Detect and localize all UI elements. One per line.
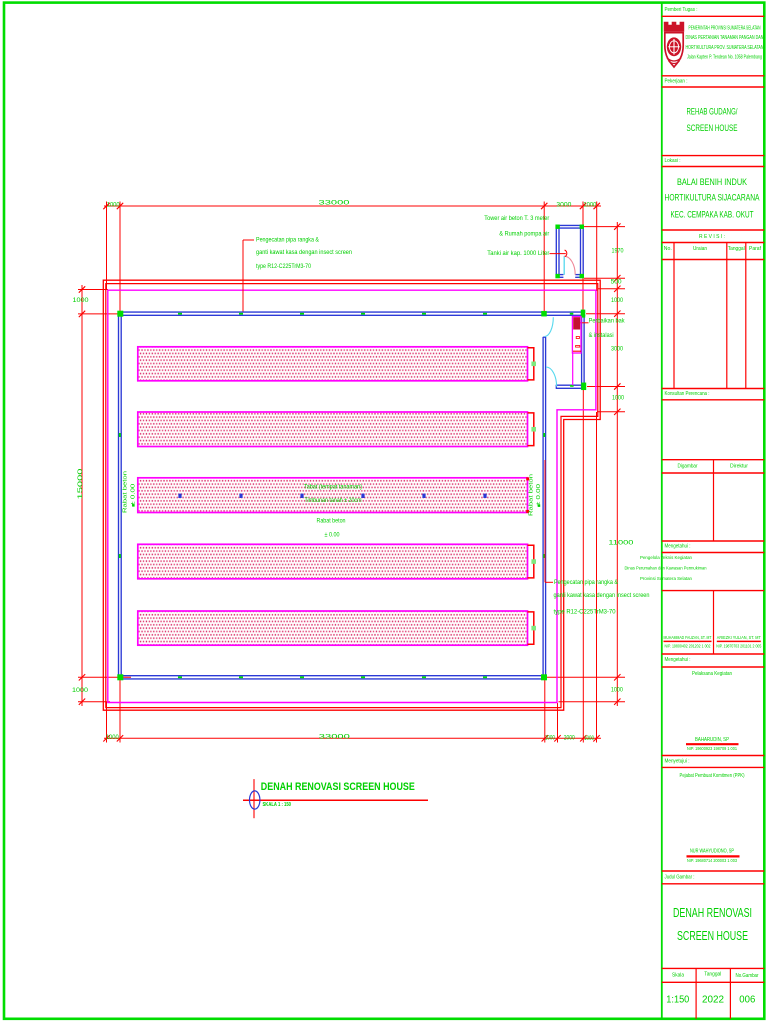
wall stud marks <box>178 313 182 315</box>
svg-text:& Rumah pompa air: & Rumah pompa air <box>499 231 550 238</box>
svg-text:Mengetahui :: Mengetahui : <box>665 657 691 663</box>
svg-text:Tanggal: Tanggal <box>704 972 721 978</box>
svg-text:Jalan Kapten P. Tendean No. 10: Jalan Kapten P. Tendean No. 1058 Palemba… <box>687 54 762 60</box>
title symbol <box>253 779 255 818</box>
svg-text:NUR WAHYUDIONO, SP: NUR WAHYUDIONO, SP <box>690 848 734 854</box>
svg-text:No.: No. <box>664 246 672 252</box>
svg-text:SKALA 1 : 150: SKALA 1 : 150 <box>263 802 292 808</box>
svg-text:Tabat (tempat tanaman): Tabat (tempat tanaman) <box>304 484 362 491</box>
svg-text:SCREEN HOUSE: SCREEN HOUSE <box>687 123 738 134</box>
svg-text:1000: 1000 <box>583 202 596 209</box>
svg-text:KEC. CEMPAKA KAB. OKUT: KEC. CEMPAKA KAB. OKUT <box>671 210 754 220</box>
svg-text:15000: 15000 <box>77 468 84 499</box>
door arc NE corner <box>545 317 554 336</box>
svg-text:Menyetujui :: Menyetujui : <box>665 758 690 764</box>
svg-text:Tanggal: Tanggal <box>728 246 745 252</box>
svg-text:Pekerjaan :: Pekerjaan : <box>665 78 688 84</box>
wall: right (east) <box>542 337 544 679</box>
svg-text:Lokasi :: Lokasi : <box>665 158 681 164</box>
bak red fill <box>573 317 580 329</box>
planting bed row 1 <box>138 347 528 381</box>
svg-text:Rabat beton: Rabat beton <box>123 471 129 513</box>
leader: tanki air <box>550 253 566 255</box>
svg-text:Provinsi Sumatera Selatan: Provinsi Sumatera Selatan <box>640 576 692 582</box>
svg-text:1970: 1970 <box>612 248 624 255</box>
svg-text:DENAH RENOVASI: DENAH RENOVASI <box>673 906 752 920</box>
svg-text:1000: 1000 <box>73 297 89 304</box>
svg-text:Judul Gambar :: Judul Gambar : <box>665 875 695 881</box>
svg-text:PEMERINTAH PROVINSI SUMATERA S: PEMERINTAH PROVINSI SUMATERA SELATAN <box>689 25 761 31</box>
svg-text:DENAH RENOVASI SCREEN HOUSE: DENAH RENOVASI SCREEN HOUSE <box>261 781 415 793</box>
svg-text:BAHARUDIN, SP: BAHARUDIN, SP <box>695 737 729 743</box>
planting bed row 4 <box>138 544 528 579</box>
pipe line <box>572 353 574 385</box>
wall: annex east <box>581 311 583 389</box>
svg-text:Tower air beton T. 3 meter: Tower air beton T. 3 meter <box>484 215 550 222</box>
title block left border <box>661 3 663 1019</box>
svg-text:1:150: 1:150 <box>666 994 689 1005</box>
svg-text:NIP. 19600923 198709 1 001: NIP. 19600923 198709 1 001 <box>687 746 737 752</box>
top extension lines <box>106 202 108 291</box>
svg-text:11000: 11000 <box>608 540 633 547</box>
wall: annex south <box>556 384 585 386</box>
planting bed row 2 <box>138 412 528 447</box>
svg-text:ganti kawat kasa dengan insect: ganti kawat kasa dengan insect screen <box>256 249 352 256</box>
svg-text:Timbunan tanah ± 20cm: Timbunan tanah ± 20cm <box>305 497 362 504</box>
svg-text:MUHAMMAD FAUZAN, ST. MT: MUHAMMAD FAUZAN, ST. MT <box>664 635 712 640</box>
svg-text:Tanki air kap. 1000 Liter: Tanki air kap. 1000 Liter <box>487 250 550 257</box>
leader: pengecatan (top) <box>243 239 254 241</box>
svg-text:Skala: Skala <box>672 973 684 979</box>
svg-text:2000: 2000 <box>564 734 575 741</box>
tower corner nodes <box>555 225 559 229</box>
top dimension line <box>104 205 601 207</box>
sprinkler dots center bed <box>178 494 181 498</box>
svg-text:Paraf: Paraf <box>749 246 762 252</box>
svg-text:1000: 1000 <box>72 687 88 694</box>
wall nodes <box>117 311 123 317</box>
svg-text:ARIEZKI YULIAN, ST. MT: ARIEZKI YULIAN, ST. MT <box>717 635 761 640</box>
dimension ticks <box>103 203 109 209</box>
svg-text:2022: 2022 <box>702 994 724 1005</box>
bottom dimension line <box>104 737 601 739</box>
bottom table columns <box>695 968 697 1018</box>
svg-text:Mengetahui :: Mengetahui : <box>665 543 691 549</box>
svg-text:Pengelola Teknis Kegiatan: Pengelola Teknis Kegiatan <box>640 555 692 561</box>
section lines <box>662 15 764 17</box>
svg-text:R E V I S I :: R E V I S I : <box>699 234 725 240</box>
door arc at annex <box>546 367 557 387</box>
svg-text:BALAI BENIH INDUK: BALAI BENIH INDUK <box>677 177 748 187</box>
planting bed row 5 <box>138 611 528 645</box>
right dimension line <box>616 222 618 706</box>
svg-text:NIP. 19800402 201202 1 002: NIP. 19800402 201202 1 002 <box>665 644 712 649</box>
svg-text:33000: 33000 <box>319 734 350 741</box>
svg-text:Pelaksana Kegiatan: Pelaksana Kegiatan <box>692 671 732 677</box>
svg-text:Digambar: Digambar <box>678 464 698 470</box>
wall: top (north) <box>118 311 585 313</box>
svg-text:± 0.00: ± 0.00 <box>325 531 340 538</box>
svg-text:NIP. 19680714 200003 1 003: NIP. 19680714 200003 1 003 <box>687 858 737 864</box>
svg-text:1000: 1000 <box>545 735 555 742</box>
svg-text:REHAB GUDANG/: REHAB GUDANG/ <box>687 107 738 118</box>
svg-text:Dinas Perumahan dan Kawasan Pe: Dinas Perumahan dan Kawasan Permukiman <box>625 566 707 572</box>
tower door leaf <box>563 256 565 275</box>
logo shield <box>664 22 684 67</box>
tower door arc <box>564 256 575 275</box>
svg-text:NIP. 19870703 201101 2 005: NIP. 19870703 201101 2 005 <box>716 644 761 649</box>
svg-text:No.Gambar: No.Gambar <box>736 973 759 979</box>
leader: pengecatan (bottom-right) <box>545 581 553 583</box>
svg-text:Pengecatan pipa rangka &: Pengecatan pipa rangka & <box>256 237 319 244</box>
svg-text:HORTIKULTURA SIJACARANA: HORTIKULTURA SIJACARANA <box>665 193 761 203</box>
svg-text:006: 006 <box>739 994 755 1005</box>
wall: bottom (south) <box>118 675 547 677</box>
magenta boundary line <box>108 290 596 702</box>
svg-text:Perbaikan bak: Perbaikan bak <box>589 317 626 324</box>
svg-text:Konsultan Perencana :: Konsultan Perencana : <box>665 391 710 397</box>
svg-text:Pejabat Pembuat Komitmen (PPK): Pejabat Pembuat Komitmen (PPK) <box>680 773 745 779</box>
svg-text:1000: 1000 <box>107 202 120 209</box>
svg-text:Rabat beton: Rabat beton <box>528 474 534 516</box>
svg-text:± 0.00: ± 0.00 <box>536 484 542 506</box>
svg-text:Pengecatan pipa rangka &: Pengecatan pipa rangka & <box>554 579 618 586</box>
left dimension line <box>81 285 83 706</box>
svg-text:33000: 33000 <box>319 200 350 207</box>
svg-text:1000: 1000 <box>611 297 623 304</box>
svg-text:SCREEN HOUSE: SCREEN HOUSE <box>677 929 748 943</box>
svg-text:DINAS PERTANIAN TANAMAN PANGAN: DINAS PERTANIAN TANAMAN PANGAN DAN <box>686 35 764 41</box>
tower walls <box>555 225 557 277</box>
svg-text:1000: 1000 <box>106 734 119 741</box>
revision table columns <box>673 243 675 389</box>
wall: left (west) <box>118 311 120 679</box>
svg-text:type R12-C225TrM3-70: type R12-C225TrM3-70 <box>256 263 311 270</box>
svg-text:type R12-C225TrM3-70: type R12-C225TrM3-70 <box>554 609 616 616</box>
svg-text:1000: 1000 <box>611 686 623 693</box>
svg-text:Rabat beton: Rabat beton <box>317 518 346 525</box>
svg-text:1000: 1000 <box>584 735 594 742</box>
svg-text:1000: 1000 <box>612 395 624 402</box>
digambar/direktur divider <box>713 460 715 541</box>
svg-text:500: 500 <box>611 278 622 285</box>
svg-text:± 0.00: ± 0.00 <box>130 484 136 506</box>
leader: perbaikan bak <box>580 322 589 324</box>
svg-text:& instalasi: & instalasi <box>589 332 614 339</box>
bak magenta outline <box>572 317 581 354</box>
svg-text:3000: 3000 <box>611 346 623 353</box>
planting bed row 3 <box>138 478 528 513</box>
svg-text:Uraian: Uraian <box>693 246 707 252</box>
svg-text:ganti kawat kasa dengan insect: ganti kawat kasa dengan insect screen <box>554 592 650 599</box>
svg-text:Direktur: Direktur <box>730 464 748 470</box>
svg-text:3000: 3000 <box>556 202 571 209</box>
svg-text:HORTIKULTURA PROV. SUMATERA SE: HORTIKULTURA PROV. SUMATERA SELATAN <box>686 45 764 51</box>
outer red boundary (double line) <box>103 280 600 710</box>
svg-text:Pemberi Tugas :: Pemberi Tugas : <box>665 7 698 13</box>
